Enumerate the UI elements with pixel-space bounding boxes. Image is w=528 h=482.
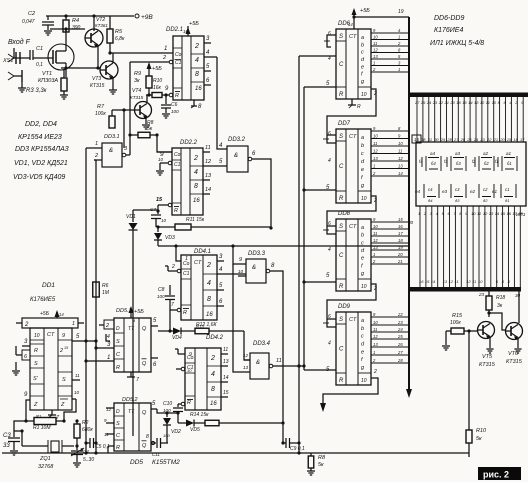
quartz crystal ZQ1 xyxy=(22,431,74,470)
svg-text:24: 24 xyxy=(426,100,432,105)
svg-text:R13: R13 xyxy=(196,324,204,329)
svg-text:9: 9 xyxy=(373,28,376,33)
svg-text:21: 21 xyxy=(493,137,498,142)
svg-text:11: 11 xyxy=(486,100,490,105)
svg-text:15: 15 xyxy=(425,279,430,284)
svg-text:14: 14 xyxy=(468,100,473,105)
svg-text:R: R xyxy=(116,445,120,451)
wire DD3.4 output to bus xyxy=(273,364,306,367)
svg-text:1: 1 xyxy=(95,141,98,147)
svg-text:9: 9 xyxy=(521,100,524,105)
svg-text:R: R xyxy=(339,378,344,384)
svg-text:18: 18 xyxy=(513,137,518,142)
svg-text:а2: а2 xyxy=(483,151,489,156)
svg-text:14: 14 xyxy=(223,375,229,381)
bus bar upper xyxy=(408,93,528,98)
svg-text:с3: с3 xyxy=(455,187,460,192)
svg-text:DD7: DD7 xyxy=(338,121,351,127)
svg-text:12: 12 xyxy=(480,100,485,105)
svg-text:4: 4 xyxy=(194,169,198,176)
svg-text:R1: R1 xyxy=(36,414,41,419)
svg-text:c: c xyxy=(361,240,364,246)
svg-text:13: 13 xyxy=(373,156,378,161)
power +5V pin14 DD1 xyxy=(40,310,64,318)
svg-text:28: 28 xyxy=(446,137,452,142)
svg-text:3: 3 xyxy=(24,339,28,345)
svg-text:е2: е2 xyxy=(470,189,476,194)
transistor VT2 KT361 xyxy=(85,14,108,47)
svg-text:f: f xyxy=(361,263,363,269)
svg-text:R9: R9 xyxy=(134,71,141,77)
svg-text:6: 6 xyxy=(206,78,210,84)
svg-text:12: 12 xyxy=(373,334,378,339)
svg-text:4: 4 xyxy=(328,247,331,253)
counter IC DD4.1 box xyxy=(181,255,217,320)
svg-text:18: 18 xyxy=(398,238,403,243)
svg-text:VT1: VT1 xyxy=(42,71,52,77)
svg-text:15: 15 xyxy=(223,390,229,396)
svg-text:19: 19 xyxy=(398,9,404,15)
capacitor C3 xyxy=(3,419,28,455)
svg-text:R: R xyxy=(116,365,120,371)
svg-text:11: 11 xyxy=(373,327,377,332)
svg-text:5: 5 xyxy=(326,81,330,87)
svg-text:10: 10 xyxy=(398,141,403,146)
svg-text:8: 8 xyxy=(398,48,401,53)
svg-text:d: d xyxy=(361,159,365,165)
svg-text:b: b xyxy=(361,42,364,48)
power rail +9V xyxy=(46,14,153,21)
svg-text:11: 11 xyxy=(373,41,377,46)
svg-text:2: 2 xyxy=(162,55,166,61)
resistor VT1 source xyxy=(60,70,68,99)
svg-text:а4: а4 xyxy=(430,151,436,156)
svg-text:д1: д1 xyxy=(505,198,509,203)
diode VD2 zener xyxy=(163,411,181,443)
svg-text:13: 13 xyxy=(373,245,378,250)
parts list text right xyxy=(430,15,484,47)
svg-text:9: 9 xyxy=(373,217,376,222)
resistor R8 horizontal xyxy=(130,120,159,138)
svg-text:Q: Q xyxy=(142,410,147,416)
svg-text:1: 1 xyxy=(418,211,420,216)
carry wire DD6 to DD7 xyxy=(323,89,377,143)
wire DD1 pin5 to DD5.1 pin3 net xyxy=(95,341,97,348)
svg-text:VT4: VT4 xyxy=(132,88,141,94)
svg-text:3: 3 xyxy=(107,342,111,348)
svg-text:14: 14 xyxy=(398,171,403,176)
svg-text:КТ315: КТ315 xyxy=(506,359,523,365)
wire R1 right up to pin10 xyxy=(64,399,76,421)
svg-text:11: 11 xyxy=(398,149,402,154)
svg-text:S: S xyxy=(116,339,120,345)
pin4 C input DD6 xyxy=(328,56,331,62)
svg-text:g: g xyxy=(361,183,365,189)
svg-text:VD1, VD2 КД521: VD1, VD2 КД521 xyxy=(14,160,68,167)
svg-text:е3: е3 xyxy=(442,189,448,194)
svg-text:R10: R10 xyxy=(476,428,487,434)
svg-text:390: 390 xyxy=(72,25,81,31)
svg-text:23: 23 xyxy=(397,320,403,325)
svg-text:100к: 100к xyxy=(95,111,106,117)
svg-text:VD2: VD2 xyxy=(171,429,181,435)
svg-text:R: R xyxy=(357,104,361,110)
svg-text:1: 1 xyxy=(373,252,375,257)
wire pin7 node down to VD4 line xyxy=(168,310,171,333)
svg-text:9: 9 xyxy=(373,312,376,317)
svg-text:23: 23 xyxy=(478,292,485,297)
svg-text:11: 11 xyxy=(373,141,377,146)
svg-text:8: 8 xyxy=(198,104,202,110)
svg-text:9: 9 xyxy=(62,333,65,339)
svg-text:100: 100 xyxy=(171,109,179,114)
svg-text:4: 4 xyxy=(211,371,215,378)
svg-text:21: 21 xyxy=(444,100,449,105)
counter IC DD8 box xyxy=(336,219,371,291)
diode VD5 on wire xyxy=(178,420,205,434)
svg-text:d: d xyxy=(361,248,365,254)
resistor R10 5k xyxy=(466,428,487,457)
svg-text:4: 4 xyxy=(509,100,512,105)
svg-text:DD3.3: DD3.3 xyxy=(248,251,266,257)
svg-text:7: 7 xyxy=(171,302,174,308)
svg-text:4: 4 xyxy=(398,28,401,33)
pin5 Q output DD5.1 xyxy=(151,318,158,326)
svg-text:S: S xyxy=(62,377,66,383)
svg-text:CT: CT xyxy=(349,224,357,230)
display pin row inside top xyxy=(421,137,525,142)
wire base VT4 from gate DD3.1 output xyxy=(112,108,134,111)
svg-text:б4: б4 xyxy=(431,161,436,166)
pin7 ground DD5.1 xyxy=(127,372,140,383)
svg-text:R: R xyxy=(339,284,344,290)
svg-text:КТ315: КТ315 xyxy=(479,362,496,368)
svg-text:9: 9 xyxy=(165,86,169,92)
svg-text:1: 1 xyxy=(72,321,75,327)
svg-text:C: C xyxy=(339,62,344,68)
svg-text:22: 22 xyxy=(486,137,492,142)
svg-text:5: 5 xyxy=(219,283,223,289)
transistor VT3 KT315 xyxy=(90,61,118,89)
diode VD4 on reset wire xyxy=(158,328,195,342)
svg-text:2: 2 xyxy=(397,41,401,46)
svg-text:R: R xyxy=(187,400,191,406)
svg-text:0,1: 0,1 xyxy=(36,62,43,68)
svg-text:f: f xyxy=(361,357,363,363)
svg-text:30: 30 xyxy=(408,220,414,225)
svg-text:100: 100 xyxy=(163,433,170,438)
svg-text:R5: R5 xyxy=(115,29,123,35)
oscillator loop wire left xyxy=(26,420,34,422)
svg-text:TT: TT xyxy=(128,326,135,332)
svg-text:с4: с4 xyxy=(428,187,433,192)
svg-text:11: 11 xyxy=(472,279,476,284)
svg-text:20: 20 xyxy=(449,100,455,105)
svg-text:R: R xyxy=(183,310,187,316)
connector XS1 input jack xyxy=(2,48,26,92)
svg-text:б2: б2 xyxy=(484,161,489,166)
svg-text:10: 10 xyxy=(471,211,476,216)
svg-text:Co: Co xyxy=(174,152,181,158)
figure caption ris 2 xyxy=(478,467,521,480)
svg-text:Q: Q xyxy=(142,443,147,449)
svg-text:R3 3,3к: R3 3,3к xyxy=(26,88,48,94)
svg-text:10: 10 xyxy=(361,92,367,98)
svg-text:7: 7 xyxy=(136,377,140,383)
bus bar lower xyxy=(409,287,521,292)
oscillator IC DD1 box xyxy=(22,318,78,410)
svg-text:S: S xyxy=(339,317,343,323)
svg-text:4: 4 xyxy=(107,334,110,340)
svg-text:3к: 3к xyxy=(134,78,140,84)
svg-text:1: 1 xyxy=(164,46,167,52)
svg-text:DD1: DD1 xyxy=(42,282,55,289)
capacitor C10 xyxy=(163,401,183,423)
svg-text:25: 25 xyxy=(466,137,472,142)
svg-text:15: 15 xyxy=(64,346,69,350)
svg-text:16: 16 xyxy=(507,211,512,216)
svg-text:4: 4 xyxy=(502,279,505,284)
svg-text:22: 22 xyxy=(438,100,444,105)
svg-text:12: 12 xyxy=(483,211,488,216)
svg-text:рис. 2: рис. 2 xyxy=(483,470,509,480)
ground R15 left xyxy=(442,331,450,350)
svg-text:12: 12 xyxy=(373,238,378,243)
svg-text:а1: а1 xyxy=(506,151,512,156)
svg-text:e: e xyxy=(361,349,364,355)
svg-text:Вход F: Вход F xyxy=(8,38,31,46)
wire DD5.2 Q to VD2 node xyxy=(157,409,178,413)
svg-text:2: 2 xyxy=(194,43,199,50)
svg-text:10: 10 xyxy=(34,333,40,339)
ground VT3 emitter xyxy=(109,77,117,94)
svg-text:30: 30 xyxy=(434,137,439,142)
pin10 DD1 right xyxy=(72,390,80,399)
svg-text:1: 1 xyxy=(185,256,188,262)
pin6 Qbar output DD5.1 xyxy=(151,358,158,368)
wire R18 to VT6 base xyxy=(489,313,506,330)
ground pin8 DD2.1 xyxy=(191,100,202,110)
svg-text:11: 11 xyxy=(373,231,377,236)
svg-text:f3: f3 xyxy=(444,159,448,164)
wire C5 capacitor bottom left xyxy=(84,438,110,450)
svg-text:CT: CT xyxy=(194,260,202,266)
wire rail to DD3.3 pin9 xyxy=(233,246,238,264)
svg-text:Z: Z xyxy=(60,402,65,408)
svg-text:16: 16 xyxy=(419,279,424,284)
svg-text:4: 4 xyxy=(195,57,199,64)
ground pin DD6 bottom xyxy=(348,99,361,110)
svg-text:10: 10 xyxy=(478,279,483,284)
svg-text:g: g xyxy=(361,365,365,371)
svg-text:е4: е4 xyxy=(415,189,421,194)
svg-text:4: 4 xyxy=(219,267,223,273)
resistor R5 xyxy=(107,16,125,53)
svg-text:16: 16 xyxy=(456,100,461,105)
svg-text:C: C xyxy=(339,253,344,259)
svg-text:CT: CT xyxy=(47,332,55,338)
svg-text:3: 3 xyxy=(219,254,223,260)
svg-text:3: 3 xyxy=(124,146,128,152)
svg-text:10: 10 xyxy=(161,218,167,223)
flip-flop DD5.1 box xyxy=(114,318,151,372)
svg-text:15: 15 xyxy=(414,137,419,142)
svg-text:a: a xyxy=(361,135,364,141)
svg-text:2: 2 xyxy=(372,358,376,363)
svg-text:9: 9 xyxy=(373,126,376,131)
svg-text:8: 8 xyxy=(207,296,211,303)
carry wire DD8 to DD9 xyxy=(323,284,377,327)
svg-text:16: 16 xyxy=(195,86,202,92)
pinR DD4.2 with C10 xyxy=(176,402,184,414)
pin3 DD1 xyxy=(22,339,30,346)
svg-text:17: 17 xyxy=(520,137,525,142)
svg-text:8: 8 xyxy=(459,211,462,216)
capacitor C8 xyxy=(157,287,175,310)
carry wire DD9 to arrow xyxy=(320,369,378,412)
svg-text:23: 23 xyxy=(479,137,485,142)
counter IC DD7 box xyxy=(336,129,371,203)
resistor R2 680k xyxy=(74,419,93,447)
pin5 DD1 right xyxy=(72,334,98,343)
svg-text:8: 8 xyxy=(271,263,275,269)
svg-text:S: S xyxy=(339,224,343,230)
svg-text:14: 14 xyxy=(59,312,64,317)
gate DD3.4 xyxy=(243,353,282,379)
svg-text:a: a xyxy=(361,225,364,231)
svg-text:2: 2 xyxy=(372,171,376,176)
wire bottom osc path xyxy=(13,429,15,431)
svg-text:DD3.2: DD3.2 xyxy=(228,137,246,143)
svg-text:6: 6 xyxy=(328,31,331,37)
svg-text:DD9: DD9 xyxy=(338,304,351,310)
svg-text:Z: Z xyxy=(33,402,38,408)
pin5 R input DD7 xyxy=(326,185,330,191)
svg-text:е1: е1 xyxy=(492,189,498,194)
output wires DD6 xyxy=(371,28,408,72)
svg-text:14: 14 xyxy=(431,279,436,284)
svg-text:R7: R7 xyxy=(97,104,105,110)
resistor R13 on reset wire xyxy=(195,324,244,334)
display indicator IL1 box xyxy=(416,142,526,206)
svg-text:DD6-DD9: DD6-DD9 xyxy=(434,15,464,22)
pin1 R input DD5.1 xyxy=(84,355,114,363)
svg-text:КТ315: КТ315 xyxy=(130,95,144,100)
svg-text:КТ361: КТ361 xyxy=(95,23,108,28)
svg-text:C10: C10 xyxy=(163,401,172,407)
pin5 Q output DD5.2 xyxy=(151,401,157,409)
svg-text:2: 2 xyxy=(193,155,198,162)
bracket S DD6 xyxy=(324,35,336,47)
svg-text:R: R xyxy=(34,348,38,354)
svg-text:31: 31 xyxy=(428,137,432,142)
svg-text:5: 5 xyxy=(219,159,223,165)
wire DD3.1 input1 from bus xyxy=(86,147,94,149)
svg-text:R11 15к: R11 15к xyxy=(186,217,205,223)
svg-text:12: 12 xyxy=(373,149,378,154)
counter IC DD2.1 box xyxy=(173,36,204,100)
svg-text:8: 8 xyxy=(195,71,199,78)
svg-text:5к: 5к xyxy=(476,436,482,442)
svg-text:11: 11 xyxy=(205,145,211,151)
svg-text:27: 27 xyxy=(453,137,459,142)
svg-text:16: 16 xyxy=(193,198,200,204)
svg-text:TT: TT xyxy=(128,409,135,415)
bottom rail wire xyxy=(2,451,469,454)
svg-text:6,8к: 6,8к xyxy=(115,36,125,42)
svg-text:R1 10М: R1 10М xyxy=(33,425,51,431)
pin4 C input DD7 xyxy=(328,158,331,164)
svg-text:10: 10 xyxy=(373,134,378,139)
svg-text:16: 16 xyxy=(398,224,403,229)
svg-text:б3: б3 xyxy=(456,161,461,166)
svg-text:10: 10 xyxy=(187,368,192,373)
svg-text:VT6: VT6 xyxy=(508,351,519,357)
svg-text:1М: 1М xyxy=(102,290,110,296)
output wires DD9 xyxy=(371,312,408,363)
svg-text:4: 4 xyxy=(219,143,223,149)
svg-text:2: 2 xyxy=(210,355,215,362)
svg-text:16: 16 xyxy=(206,312,213,318)
svg-text:27: 27 xyxy=(414,100,420,105)
svg-text:27: 27 xyxy=(397,350,403,355)
svg-text:б1: б1 xyxy=(507,161,512,166)
svg-text:ZQ1: ZQ1 xyxy=(39,456,51,462)
svg-text:16: 16 xyxy=(183,29,189,34)
pin4 C input DD8 xyxy=(328,247,331,253)
svg-text:К155ТМ2: К155ТМ2 xyxy=(152,459,180,466)
wire node line to VT3 base xyxy=(61,66,100,69)
wire DD3.4 pin13 from rail x233 xyxy=(233,264,244,372)
pin6 DD1 xyxy=(12,346,30,375)
svg-text:5к: 5к xyxy=(147,126,153,132)
display corner pin 15 xyxy=(412,135,421,143)
svg-text:C3: C3 xyxy=(3,433,11,439)
wire VT6 collector from bar xyxy=(515,291,521,323)
svg-text:13: 13 xyxy=(373,54,378,59)
wire VT1 source to node xyxy=(65,70,67,77)
pin5 R input DD8 xyxy=(326,273,330,279)
pin2 C1 DD4.1 xyxy=(165,264,181,273)
svg-text:S: S xyxy=(339,34,343,40)
svg-text:f: f xyxy=(361,175,363,181)
svg-text:2: 2 xyxy=(206,262,211,269)
svg-text:3: 3 xyxy=(430,211,433,216)
svg-text:12: 12 xyxy=(373,48,378,53)
svg-text:+5Б: +5Б xyxy=(134,309,144,315)
svg-text:2: 2 xyxy=(24,322,29,328)
svg-text:10: 10 xyxy=(361,378,367,384)
wire clock bus to DD6 pin4 xyxy=(299,55,336,57)
pin5 R input DD9 xyxy=(326,367,330,373)
svg-text:R: R xyxy=(174,208,178,214)
svg-text:12: 12 xyxy=(243,353,249,358)
svg-text:5: 5 xyxy=(76,334,80,340)
pin2 D input DD5.1 xyxy=(99,320,114,329)
svg-text:g: g xyxy=(361,271,365,277)
resistor R11 horizontal on wire xyxy=(158,224,273,230)
svg-text:f2: f2 xyxy=(472,159,476,164)
resistor R9b bottom xyxy=(307,453,326,475)
svg-text:C8: C8 xyxy=(158,287,165,293)
svg-text:д2: д2 xyxy=(483,198,488,203)
pin R input DD5.2 ground xyxy=(108,446,114,453)
svg-text:C: C xyxy=(116,352,120,358)
clock bus wire vertical xyxy=(297,56,300,453)
svg-text:R10: R10 xyxy=(153,78,162,84)
svg-text:5: 5 xyxy=(442,211,445,216)
resistor R6 on bus xyxy=(93,282,110,297)
